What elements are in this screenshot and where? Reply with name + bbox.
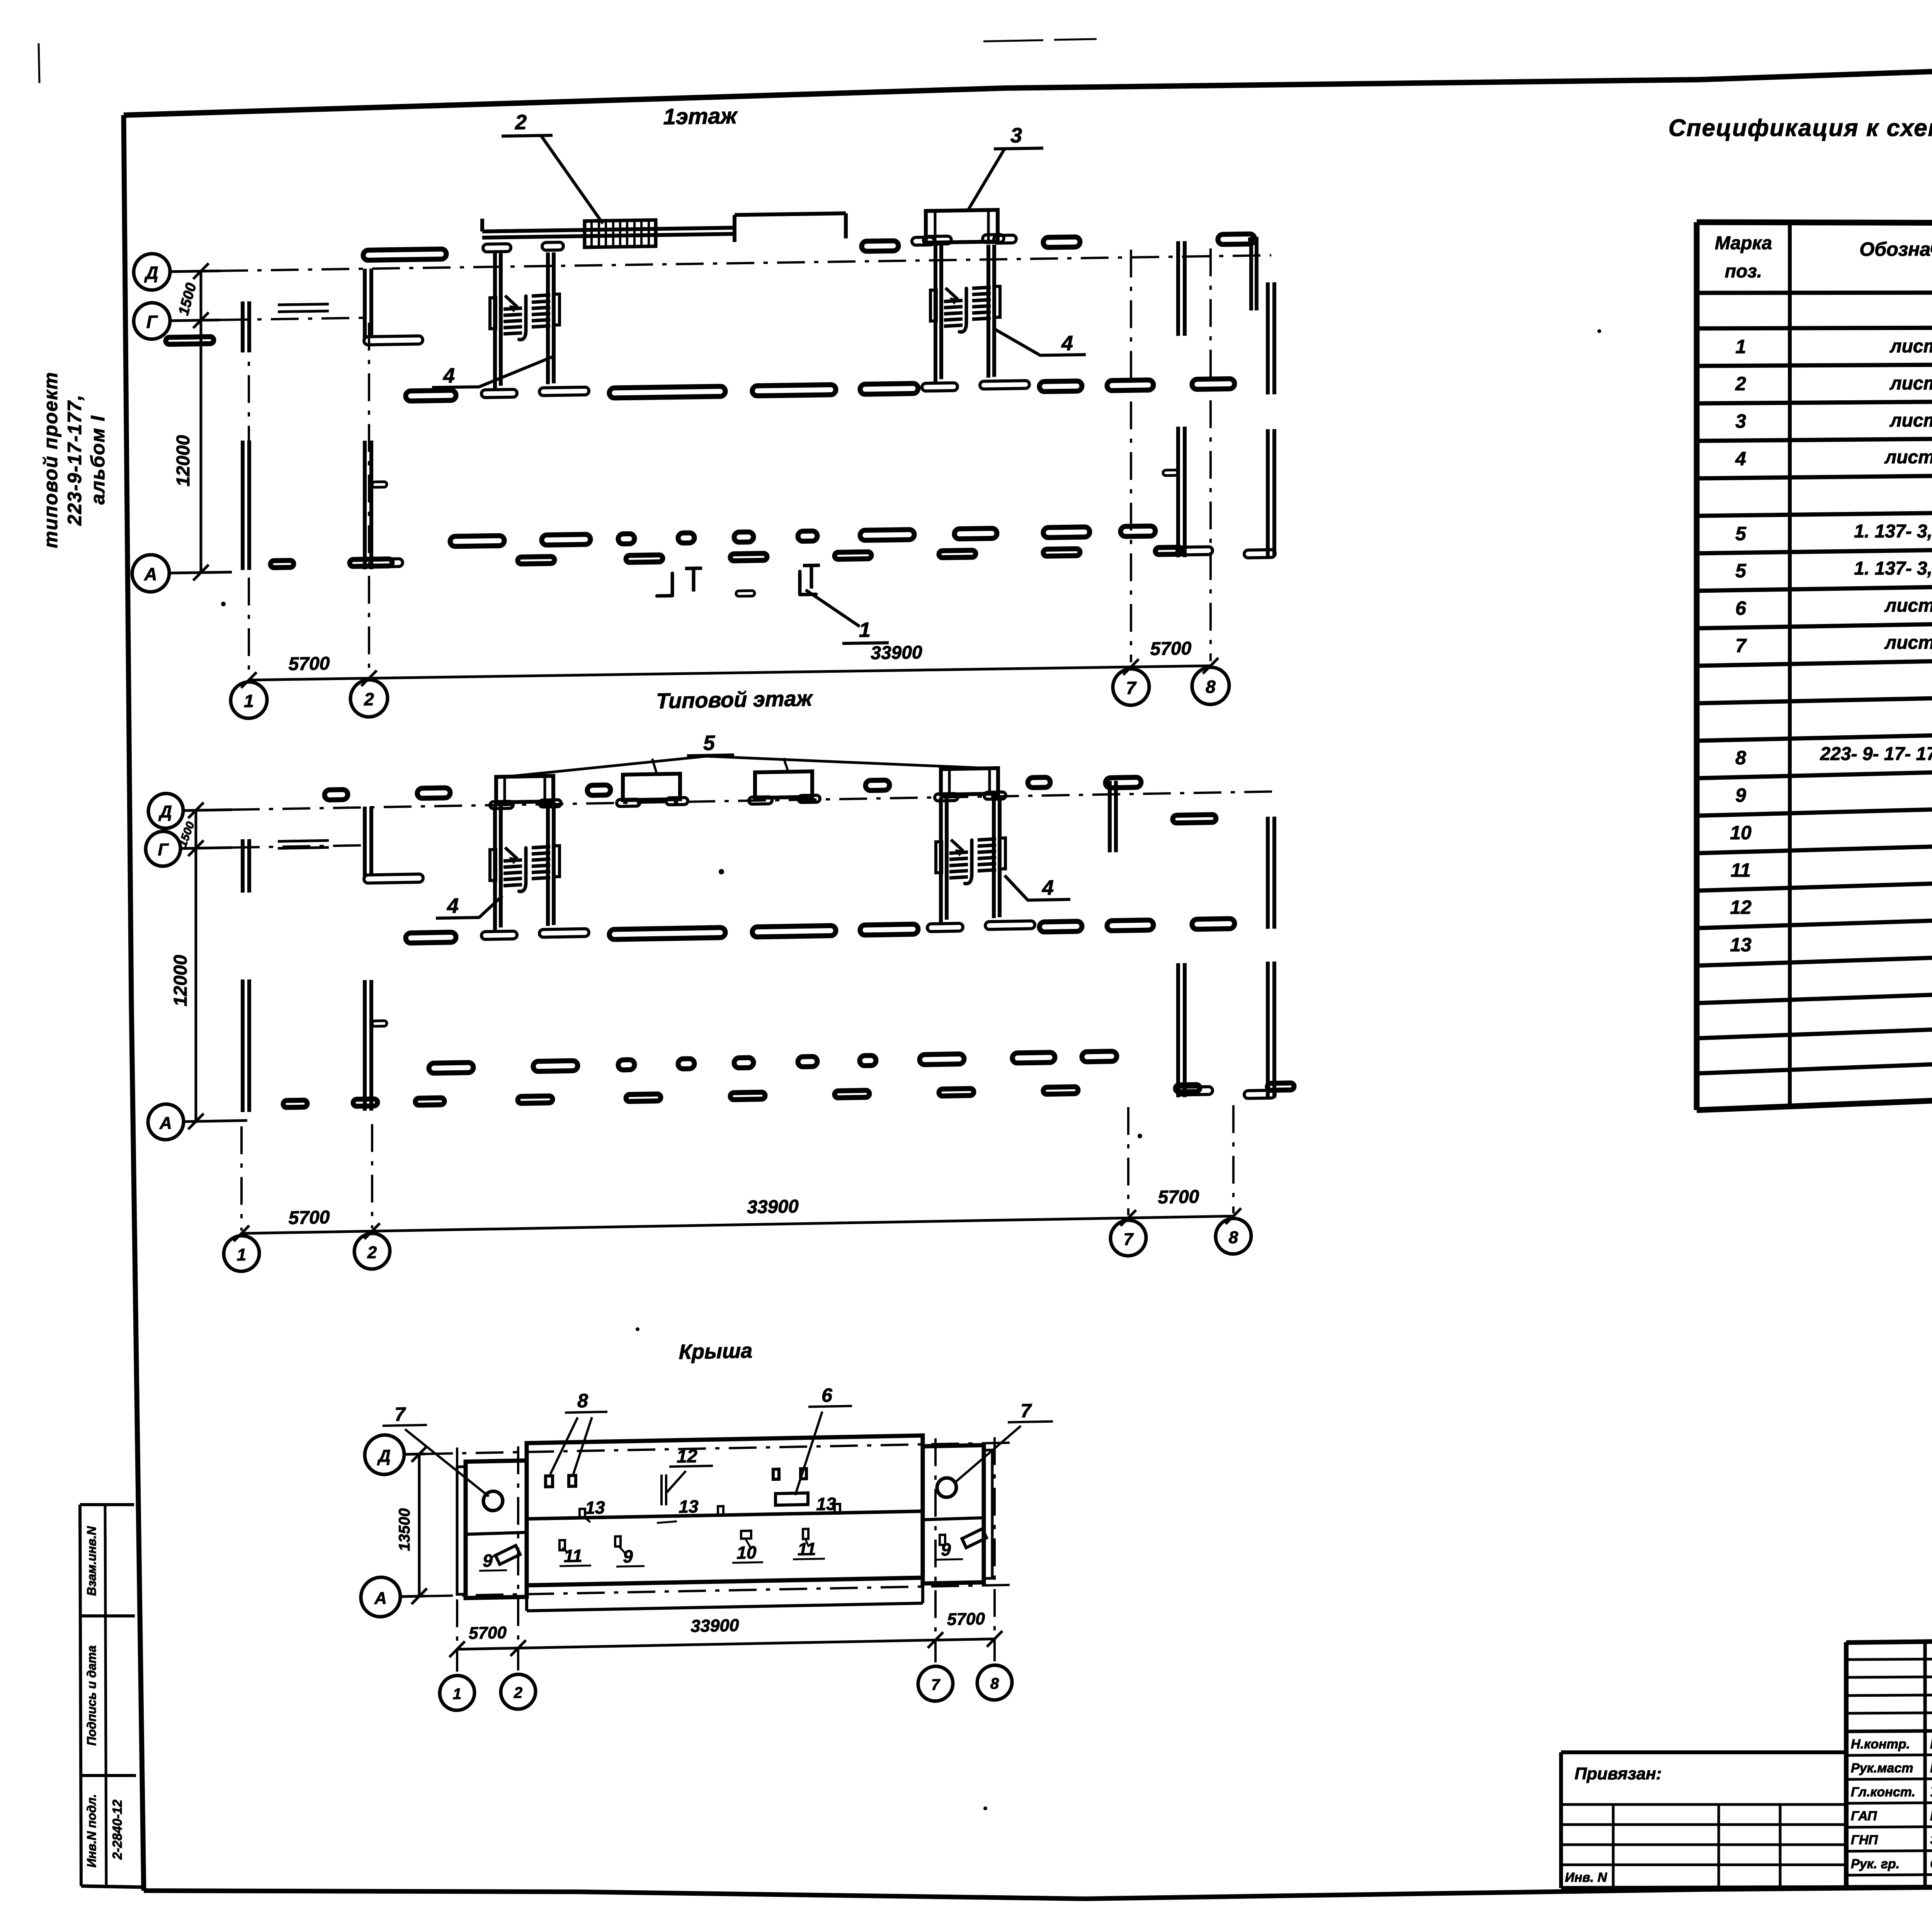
- svg-text:2: 2: [364, 689, 374, 709]
- svg-text:7: 7: [1735, 635, 1747, 656]
- svg-text:5: 5: [703, 731, 715, 755]
- svg-text:Привязан:: Привязан:: [1575, 1764, 1662, 1783]
- svg-text:2: 2: [514, 1684, 522, 1701]
- svg-text:Н.контр.: Н.контр.: [1851, 1737, 1910, 1752]
- svg-text:альбом I: альбом I: [87, 415, 109, 504]
- svg-text:7: 7: [931, 1676, 940, 1693]
- svg-text:Д: Д: [377, 1447, 391, 1466]
- svg-text:Угаров: Угаров: [1930, 1785, 1932, 1799]
- svg-text:7: 7: [1124, 1230, 1134, 1249]
- svg-text:лист 31: лист 31: [1884, 633, 1932, 653]
- svg-text:1: 1: [453, 1685, 461, 1702]
- svg-text:4: 4: [1735, 448, 1746, 469]
- svg-text:Типовой этаж: Типовой этаж: [656, 686, 813, 713]
- svg-text:1: 1: [859, 618, 871, 641]
- svg-text:9: 9: [1735, 784, 1746, 806]
- svg-text:Д: Д: [158, 802, 172, 821]
- svg-text:13: 13: [585, 1497, 605, 1518]
- svg-text:6: 6: [821, 1384, 833, 1406]
- svg-text:3: 3: [1010, 124, 1022, 147]
- svg-text:4: 4: [443, 364, 455, 387]
- svg-text:поз.: поз.: [1725, 261, 1762, 282]
- svg-text:Крыша: Крыша: [679, 1339, 752, 1364]
- svg-text:1: 1: [244, 691, 254, 711]
- svg-text:3: 3: [1735, 410, 1746, 432]
- svg-text:6: 6: [1735, 597, 1747, 619]
- svg-text:7: 7: [1020, 1400, 1032, 1422]
- svg-text:5700: 5700: [289, 1207, 330, 1228]
- svg-text:33900: 33900: [747, 1196, 799, 1218]
- svg-text:Подпись и дата: Подпись и дата: [85, 1645, 99, 1745]
- svg-text:4: 4: [1042, 876, 1054, 900]
- svg-text:8: 8: [1206, 677, 1216, 697]
- svg-text:12: 12: [1730, 896, 1752, 918]
- svg-text:1: 1: [1735, 336, 1746, 357]
- svg-text:12000: 12000: [170, 954, 191, 1007]
- svg-text:1. 137- 3, вып.1: 1. 137- 3, вып.1: [1854, 558, 1932, 579]
- svg-text:12000: 12000: [173, 435, 194, 487]
- svg-text:А: А: [144, 564, 157, 584]
- svg-text:Земляк: Земляк: [1930, 1833, 1932, 1847]
- svg-text:8: 8: [1229, 1228, 1238, 1247]
- svg-text:7: 7: [395, 1403, 406, 1425]
- svg-text:Камай: Камай: [1930, 1737, 1932, 1752]
- svg-text:ГНП: ГНП: [1851, 1833, 1878, 1847]
- svg-text:5700: 5700: [1158, 1187, 1199, 1208]
- svg-text:лист 29: лист 29: [1884, 447, 1932, 468]
- svg-text:А: А: [374, 1589, 387, 1608]
- svg-text:5700: 5700: [1150, 638, 1192, 660]
- svg-text:223-9-17-177,: 223-9-17-177,: [64, 394, 85, 526]
- svg-text:11: 11: [564, 1546, 582, 1566]
- svg-text:7: 7: [1126, 678, 1137, 698]
- svg-text:4: 4: [1061, 332, 1073, 355]
- svg-text:13: 13: [816, 1493, 836, 1514]
- svg-text:5: 5: [1735, 560, 1747, 582]
- svg-text:9: 9: [941, 1539, 951, 1560]
- svg-text:Рук.маст: Рук.маст: [1851, 1761, 1913, 1776]
- svg-text:5700: 5700: [947, 1609, 985, 1629]
- svg-text:1: 1: [237, 1245, 246, 1264]
- svg-text:13: 13: [679, 1496, 699, 1517]
- svg-text:2: 2: [515, 111, 527, 134]
- svg-text:2: 2: [1735, 373, 1746, 395]
- svg-text:лист 7: лист 7: [1889, 373, 1932, 394]
- svg-text:Обозначение: Обозначение: [1859, 238, 1932, 260]
- svg-text:Гл.конст.: Гл.конст.: [1851, 1785, 1915, 1799]
- svg-text:8: 8: [990, 1675, 999, 1692]
- svg-text:5700: 5700: [469, 1623, 507, 1643]
- svg-text:10: 10: [1730, 822, 1752, 844]
- svg-text:5: 5: [1735, 523, 1747, 544]
- svg-text:лист 7: лист 7: [1889, 410, 1932, 431]
- svg-text:Г: Г: [158, 840, 169, 859]
- svg-text:А: А: [159, 1114, 172, 1133]
- svg-text:5700: 5700: [289, 653, 330, 675]
- svg-text:33900: 33900: [690, 1615, 739, 1636]
- svg-text:8: 8: [577, 1390, 588, 1412]
- svg-text:Магидин: Магидин: [1930, 1761, 1932, 1776]
- svg-text:Спецификация к схемам распо: Спецификация к схемам расположения элеме…: [1668, 115, 1932, 141]
- svg-text:13500: 13500: [396, 1508, 413, 1551]
- svg-text:10: 10: [736, 1542, 757, 1563]
- svg-text:8: 8: [1735, 747, 1746, 769]
- svg-text:12: 12: [677, 1446, 697, 1467]
- svg-text:2-2840-12: 2-2840-12: [110, 1799, 125, 1860]
- svg-text:1этаж: 1этаж: [663, 103, 738, 129]
- svg-text:типовой проект: типовой проект: [40, 371, 61, 548]
- svg-text:33900: 33900: [871, 642, 922, 663]
- svg-text:Марка: Марка: [1715, 233, 1772, 253]
- svg-text:9: 9: [623, 1546, 633, 1566]
- svg-text:Г: Г: [146, 311, 158, 332]
- svg-text:Д: Д: [144, 262, 158, 283]
- svg-text:11: 11: [1731, 859, 1751, 881]
- svg-text:Инв.N подл.: Инв.N подл.: [85, 1794, 99, 1867]
- svg-text:223- 9- 17- 177 - 04. 000: 223- 9- 17- 177 - 04. 000: [1820, 744, 1932, 764]
- svg-text:4: 4: [447, 894, 459, 918]
- svg-text:ГАП: ГАП: [1851, 1809, 1878, 1823]
- svg-text:2: 2: [367, 1243, 377, 1262]
- svg-text:лист 30: лист 30: [1884, 595, 1932, 616]
- svg-text:лист 6: лист 6: [1889, 336, 1932, 357]
- svg-text:1. 137- 3, вып.1: 1. 137- 3, вып.1: [1854, 521, 1932, 542]
- svg-text:Взам.инв.N: Взам.инв.N: [85, 1526, 99, 1596]
- svg-text:9: 9: [483, 1550, 493, 1570]
- svg-text:13: 13: [1730, 934, 1752, 956]
- svg-text:Рук. гр.: Рук. гр.: [1851, 1857, 1900, 1871]
- svg-text:Инв. N: Инв. N: [1565, 1870, 1607, 1885]
- svg-text:Сафарова: Сафарова: [1930, 1857, 1932, 1871]
- svg-text:Камад: Камад: [1930, 1809, 1932, 1823]
